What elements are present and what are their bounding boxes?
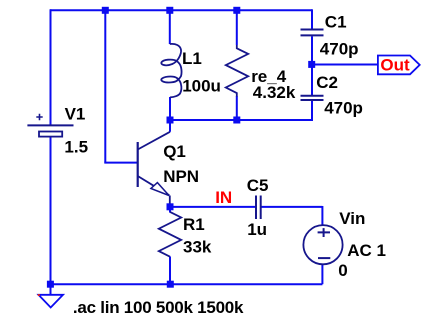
svg-text:L1: L1 — [182, 49, 202, 68]
wire re_4 bottom lead — [236, 96, 238, 120]
junction node IN — [167, 203, 174, 210]
Out port flag — [378, 56, 420, 75]
wire C2 top lead — [311, 64, 313, 95]
svg-text:Vin: Vin — [339, 209, 365, 228]
svg-text:.ac lin 100 500k 1500k: .ac lin 100 500k 1500k — [73, 298, 244, 317]
junction node Out — [308, 61, 315, 68]
capacitor C1 — [301, 30, 324, 36]
junction node top x=170 — [166, 7, 173, 14]
svg-text:Q1: Q1 — [163, 142, 186, 161]
wire R1 top stub — [169, 207, 171, 213]
svg-text:AC 1: AC 1 — [347, 241, 386, 260]
Out label — [380, 56, 410, 75]
Vin value 0 — [338, 261, 347, 280]
battery V1 — [27, 114, 73, 137]
Vin value AC 1 — [347, 241, 386, 260]
wire re_4 top lead — [236, 9, 238, 45]
ground — [38, 294, 63, 308]
wire Vin bottom lead — [321, 265, 323, 285]
resistor R1 — [159, 212, 181, 257]
wire Vin top lead — [321, 206, 323, 225]
wire L1 bottom lead — [169, 97, 171, 120]
svg-text:C2: C2 — [316, 73, 338, 92]
wire Q1 collector stub — [169, 119, 171, 132]
wire left vertical lower (V1 minus lead) — [50, 137, 52, 285]
junction node mid x=170 — [167, 117, 174, 124]
wire to Out flag — [312, 64, 378, 66]
wire top rail — [50, 9, 312, 11]
R1 label — [183, 215, 205, 234]
svg-text:C5: C5 — [247, 176, 269, 195]
junction node top x=105 — [102, 7, 109, 14]
svg-text:C1: C1 — [325, 13, 347, 32]
Vin label — [339, 209, 365, 228]
C1 value 470p — [320, 40, 359, 59]
svg-text:V1: V1 — [65, 105, 86, 124]
wire middle rail y=120 — [170, 119, 312, 121]
re_4 value 4.32k — [253, 83, 296, 102]
wire R1 bottom lead — [169, 257, 171, 285]
C2 value 470p — [324, 98, 363, 117]
junction node R1 bottom — [167, 281, 174, 288]
wire bottom rail — [50, 283, 322, 285]
svg-text:IN: IN — [215, 188, 232, 207]
spice directive — [73, 298, 244, 317]
R1 value 33k — [183, 238, 212, 257]
wire left vertical upper (V1 plus lead) — [50, 9, 52, 125]
junction node ground — [47, 281, 54, 288]
wire C1 bottom lead to node — [311, 36, 313, 64]
svg-text:R1: R1 — [183, 215, 205, 234]
Q1 type NPN — [163, 167, 199, 186]
wire C5 to Vin — [261, 206, 323, 208]
wire C1 top lead — [311, 9, 313, 28]
svg-text:1.5: 1.5 — [64, 137, 88, 156]
V1 label — [65, 105, 86, 124]
C5 label — [247, 176, 269, 195]
node IN label — [215, 188, 232, 207]
C2 label — [316, 73, 338, 92]
svg-text:100u: 100u — [182, 77, 221, 96]
svg-text:NPN: NPN — [163, 167, 199, 186]
wire L1 top lead — [169, 9, 171, 44]
capacitor C2 — [301, 96, 324, 100]
resistor re_4 — [226, 45, 248, 97]
wire ground stub — [50, 284, 52, 295]
svg-text:4.32k: 4.32k — [253, 83, 296, 102]
wire base feed vertical x=105 — [104, 9, 106, 162]
transistor Q1 — [138, 132, 170, 207]
V1 value 1.5 — [64, 137, 88, 156]
capacitor C5 — [256, 196, 261, 220]
C1 label — [325, 13, 347, 32]
wire IN node to C5 — [170, 206, 256, 208]
svg-text:1u: 1u — [247, 220, 267, 239]
Q1 label — [163, 142, 186, 161]
inductor L1 — [161, 44, 181, 98]
junction node top x=237 — [233, 7, 240, 14]
voltage source Vin — [303, 225, 342, 264]
svg-text:33k: 33k — [183, 238, 212, 257]
L1 value 100u — [182, 77, 221, 96]
svg-text:Out: Out — [380, 56, 410, 75]
junction node mid x=237 — [233, 117, 240, 124]
L1 label — [182, 49, 202, 68]
re_4 label — [251, 67, 287, 86]
wire C2 bottom lead — [311, 101, 313, 121]
svg-text:470p: 470p — [320, 40, 359, 59]
wire base feed horizontal to Q1 — [104, 162, 137, 164]
svg-text:0: 0 — [338, 261, 347, 280]
svg-text:470p: 470p — [324, 98, 363, 117]
C5 value 1u — [247, 220, 267, 239]
